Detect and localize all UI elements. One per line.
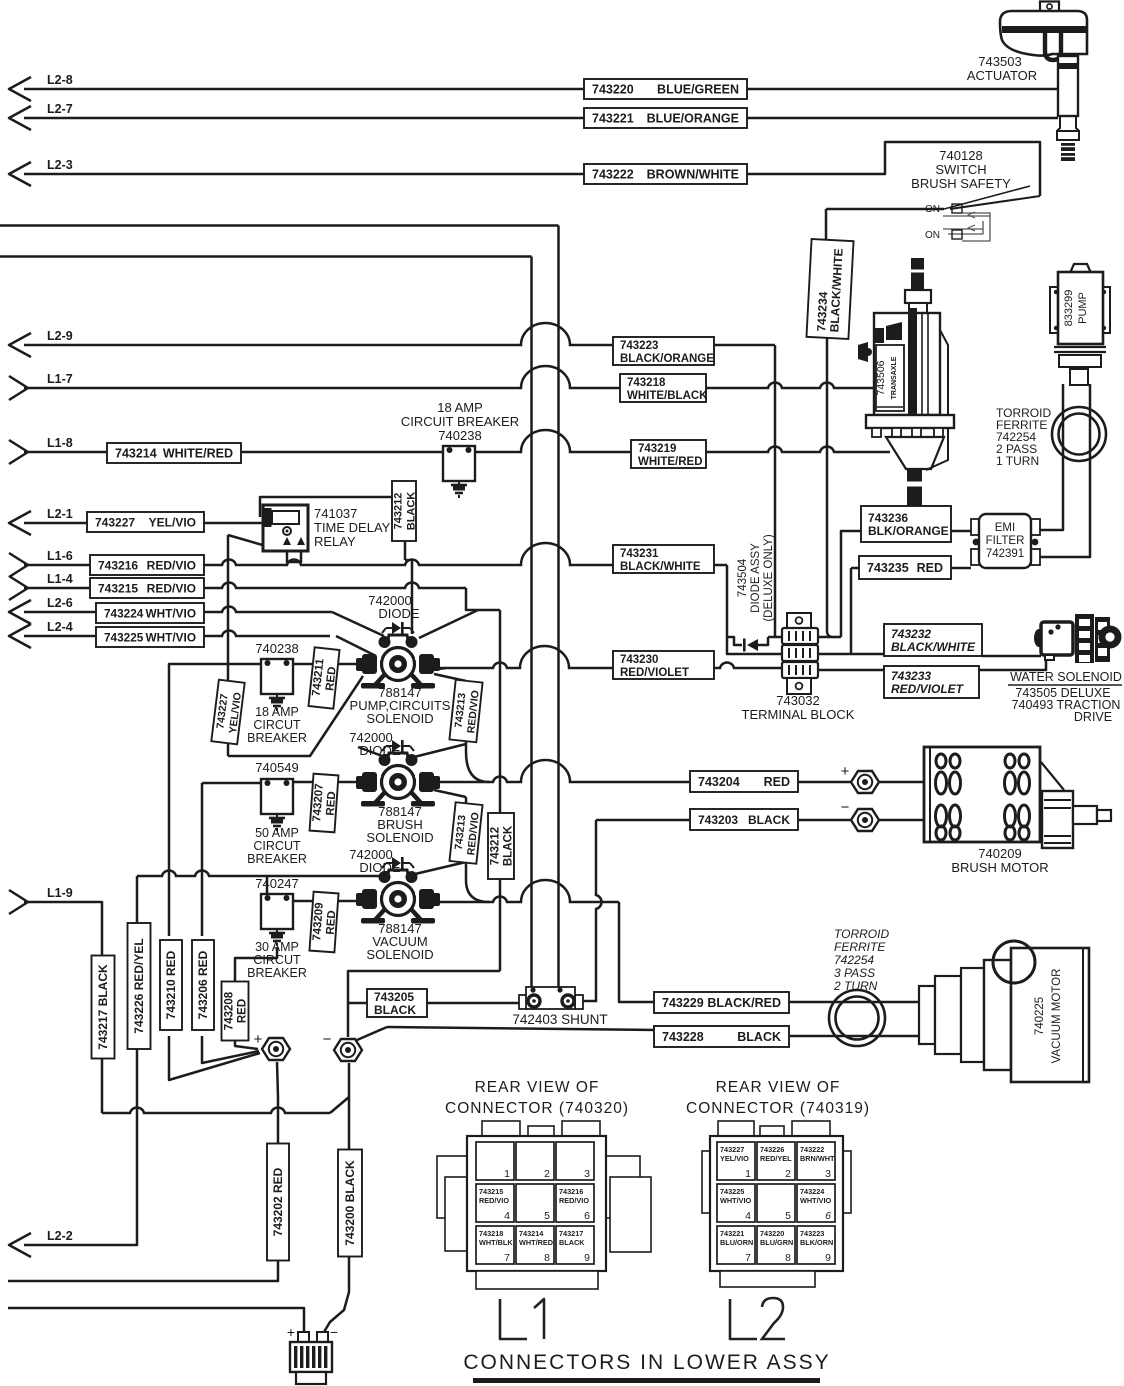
wire relay pins	[287, 551, 301, 562]
wire branch to brush solenoid	[414, 744, 466, 757]
svg-text:740128: 740128	[939, 148, 982, 163]
wire 743234 switch drop	[826, 208, 944, 211]
svg-text:CIRCUIT BREAKER: CIRCUIT BREAKER	[401, 414, 519, 429]
node L1-4	[9, 576, 28, 600]
svg-text:L1-4: L1-4	[47, 572, 73, 586]
svg-text:743226: 743226	[760, 1145, 784, 1154]
svg-text:BLACK: BLACK	[374, 1003, 416, 1017]
svg-text:743226 RED/YEL: 743226 RED/YEL	[132, 938, 146, 1033]
svg-text:EMI: EMI	[995, 522, 1015, 534]
label 743212 black #2	[488, 813, 514, 879]
svg-text:WHT/VIO: WHT/VIO	[146, 631, 196, 645]
connector L1 pin 4	[476, 1184, 514, 1222]
pump 833299	[1070, 264, 1091, 273]
wire L1-4 jog to black wire	[466, 588, 500, 610]
svg-text:+: +	[841, 763, 850, 780]
svg-text:BLACK: BLACK	[559, 1238, 585, 1247]
svg-text:743232: 743232	[891, 627, 931, 641]
svg-text:743210 RED: 743210 RED	[164, 950, 178, 1019]
shunt 742403	[519, 995, 527, 1009]
svg-text:BLK/ORANGE: BLK/ORANGE	[868, 524, 949, 538]
connector L2 pin 2	[757, 1142, 795, 1180]
svg-text:DRIVE: DRIVE	[1074, 710, 1112, 724]
wire 50a breaker feed	[228, 755, 231, 758]
svg-text:BROWN/WHITE: BROWN/WHITE	[647, 168, 739, 182]
svg-text:FERRITE: FERRITE	[834, 940, 886, 954]
wire minus stud diag to 743228	[357, 1027, 387, 1040]
connector L1 body	[482, 1121, 520, 1136]
wire 743229 drop	[619, 902, 654, 1002]
svg-text:RED: RED	[324, 666, 338, 691]
wire 743229 vacuum solenoid right	[434, 880, 619, 902]
wire 743206 drop	[201, 783, 204, 936]
svg-text:VACUUM MOTOR: VACUUM MOTOR	[1051, 969, 1063, 1064]
svg-text:740225: 740225	[1034, 997, 1046, 1035]
connector L2 pin 9	[797, 1226, 835, 1264]
label 743216 red/vio	[90, 555, 204, 575]
svg-text:L2-6: L2-6	[47, 596, 73, 610]
wire manifold 876	[137, 870, 267, 876]
svg-text:6: 6	[584, 1210, 590, 1222]
torroid ferrite 742254 vacuum	[829, 990, 885, 1046]
wire 743233 to water solenoid	[979, 657, 1046, 670]
svg-text:743214: 743214	[115, 447, 157, 461]
svg-text:RED/VIO: RED/VIO	[479, 1196, 509, 1205]
svg-text:1: 1	[745, 1168, 751, 1180]
wire 743209 breaker to vacuum solenoid	[288, 900, 363, 903]
svg-text:833299: 833299	[1063, 290, 1075, 327]
svg-text:BRUSH MOTOR: BRUSH MOTOR	[951, 860, 1048, 875]
label 743236 blk/orange	[861, 506, 951, 542]
svg-text:L2-8: L2-8	[47, 73, 73, 87]
svg-text:740209: 740209	[978, 846, 1021, 861]
wire L2-6 diagonal to pump diode	[332, 612, 384, 636]
wire 743219 to transaxle	[474, 430, 890, 452]
label 743225 wht/vio	[96, 627, 204, 647]
wire minus stud to brush motor	[878, 819, 924, 822]
wire 743231 drop	[727, 565, 783, 654]
connector L1 pin 2	[516, 1142, 554, 1180]
svg-text:ON: ON	[925, 230, 940, 241]
wire middle cell to 743232	[816, 653, 884, 656]
svg-text:BLACK/WHITE: BLACK/WHITE	[891, 640, 976, 654]
svg-text:REAR VIEW OF: REAR VIEW OF	[475, 1079, 600, 1096]
svg-text:BREAKER: BREAKER	[247, 852, 307, 866]
svg-text:REAR VIEW OF: REAR VIEW OF	[716, 1079, 841, 1096]
wire L2-4 diagonal to pump solenoid	[336, 636, 376, 656]
label 743219 white/red	[631, 440, 706, 468]
svg-text:743215: 743215	[479, 1187, 503, 1196]
svg-text:RED: RED	[325, 910, 339, 935]
label 743212 black #1	[392, 481, 416, 541]
svg-text:743229: 743229	[662, 996, 704, 1010]
svg-text:741037: 741037	[314, 506, 357, 521]
connector L2 pin 5	[757, 1184, 795, 1222]
svg-text:743216: 743216	[98, 559, 138, 573]
connector L2 pin 8	[757, 1226, 795, 1264]
label 743221 blue/orange	[584, 108, 747, 128]
wire battery plus feed	[8, 1308, 304, 1331]
svg-text:18 AMP: 18 AMP	[255, 705, 299, 719]
svg-text:743206 RED: 743206 RED	[196, 950, 210, 1019]
wire 743206 diag to plus stud	[202, 1036, 259, 1063]
svg-text:743202 RED: 743202 RED	[271, 1167, 285, 1236]
wire 743204 brush solenoid to motor plus	[434, 760, 852, 782]
wire 743236 blk/orange	[841, 531, 861, 637]
label 743213 red/vio #1	[449, 680, 482, 742]
wire diode assy jog	[758, 637, 768, 645]
wire 743236 to emi	[951, 530, 971, 533]
svg-text:743227: 743227	[720, 1145, 744, 1154]
svg-text:RED: RED	[764, 775, 790, 789]
node L2-3	[9, 162, 31, 186]
svg-text:RED/VIO: RED/VIO	[559, 1196, 589, 1205]
svg-text:SOLENOID: SOLENOID	[366, 711, 433, 726]
svg-text:6: 6	[825, 1210, 831, 1222]
label 743214 white/red	[107, 443, 241, 463]
wire L1-4 / 743215	[24, 582, 466, 588]
label 743228 black	[654, 1026, 789, 1047]
svg-text:742391: 742391	[986, 548, 1024, 560]
connector L2 body	[718, 1121, 754, 1136]
label 743222 brown/white	[584, 164, 747, 184]
wire 743235 red	[850, 568, 853, 654]
svg-text:BLUE/ORANGE: BLUE/ORANGE	[647, 112, 739, 126]
wire 743228 black	[387, 1027, 657, 1030]
wire 18 amp breaker 2 feed	[169, 663, 267, 665]
svg-text:743215: 743215	[98, 582, 138, 596]
wire L2-1 / 743227 to relay	[24, 522, 263, 525]
wire L1-9 drop	[24, 902, 102, 1113]
wire 743234 to terminal	[826, 338, 829, 631]
svg-text:BLUE/GREEN: BLUE/GREEN	[657, 83, 739, 97]
svg-text:BLACK: BLACK	[748, 813, 790, 827]
label 743220 blue/green	[584, 79, 747, 99]
svg-text:L1-6: L1-6	[47, 549, 73, 563]
connector L2 pin 6	[797, 1184, 835, 1222]
wire chain2 drop	[465, 797, 468, 880]
svg-text:RED/VIOLET: RED/VIOLET	[620, 667, 689, 679]
svg-text:743504: 743504	[737, 558, 749, 597]
svg-text:743203: 743203	[698, 813, 738, 827]
svg-text:9: 9	[584, 1252, 590, 1264]
svg-text:743225: 743225	[104, 631, 144, 645]
circuit breaker 740247	[261, 894, 293, 929]
wire chain1 diag	[434, 674, 466, 681]
connector L2 pin 7	[717, 1226, 755, 1264]
connector L1 pin 1	[476, 1142, 514, 1180]
svg-text:TIME DELAY: TIME DELAY	[314, 520, 391, 535]
svg-text:L2-9: L2-9	[47, 329, 73, 343]
svg-text:3 PASS: 3 PASS	[834, 966, 875, 980]
svg-text:WHITE/BLACK: WHITE/BLACK	[627, 390, 708, 402]
label 743231 black/white	[613, 545, 714, 573]
solenoid 788147 pump circuits	[386, 635, 410, 647]
svg-text:L2-2: L2-2	[47, 1229, 73, 1243]
wire 743208 up to 30a breaker	[235, 947, 277, 982]
svg-text:BREAKER: BREAKER	[247, 731, 307, 745]
label 743203 black	[690, 809, 798, 830]
wire 50a left	[202, 782, 264, 785]
svg-text:7: 7	[504, 1252, 510, 1264]
connector L2 pin 1	[717, 1142, 755, 1180]
label 743204 red	[690, 771, 798, 792]
wire harness upper	[0, 224, 559, 227]
wire 743228 to vacuum motor	[657, 1035, 919, 1038]
svg-text:742403 SHUNT: 742403 SHUNT	[512, 1012, 607, 1027]
svg-text:3: 3	[825, 1168, 831, 1180]
wire harness lower	[0, 255, 532, 258]
wire 743235 to emi	[951, 567, 971, 570]
terminal block 743032	[787, 613, 811, 629]
svg-text:743218: 743218	[479, 1229, 503, 1238]
svg-text:30 AMP: 30 AMP	[255, 940, 299, 954]
svg-text:L2-7: L2-7	[47, 102, 73, 116]
svg-text:BLACK: BLACK	[406, 492, 418, 531]
svg-text:YEL/VIO: YEL/VIO	[149, 516, 196, 530]
wire top cell left	[768, 636, 783, 639]
wire minus stud to 743200	[324, 1063, 349, 1332]
wire bottom cell to 743233	[816, 669, 884, 672]
svg-text:WHT/RED: WHT/RED	[519, 1238, 553, 1247]
svg-text:5: 5	[544, 1210, 550, 1222]
wire 743235 left	[851, 567, 859, 570]
wire 743210 diag to plus stud	[169, 1036, 260, 1080]
wire 30a breaker feed drop	[266, 876, 269, 893]
svg-text:FILTER: FILTER	[986, 535, 1025, 547]
wire brush minus drop to shunt	[582, 820, 602, 1001]
svg-text:WHT/BLK: WHT/BLK	[479, 1238, 513, 1247]
wire L2-3 to brush safety switch	[24, 142, 1040, 196]
diode assy diode	[747, 639, 758, 651]
svg-text:1: 1	[504, 1168, 510, 1180]
svg-text:743503: 743503	[978, 54, 1021, 69]
wire L2-7 to actuator	[24, 117, 1058, 120]
label 743200 black	[338, 1150, 362, 1257]
label 743209 red	[309, 892, 339, 953]
wire chain2 curve	[466, 880, 489, 902]
wire diode leader brush	[358, 747, 382, 756]
label 743206 red	[192, 940, 214, 1030]
label 743202 red	[267, 1144, 289, 1261]
label 743211 red	[308, 647, 340, 708]
svg-text:BLACK/WHITE: BLACK/WHITE	[620, 561, 701, 573]
label 743218 white/black	[620, 374, 706, 402]
node L2-7	[9, 106, 31, 130]
svg-text:DIODE ASSY: DIODE ASSY	[750, 543, 762, 613]
node L1-9	[9, 890, 28, 914]
svg-text:BLACK/ORANGE: BLACK/ORANGE	[620, 353, 714, 365]
svg-text:743222: 743222	[592, 168, 634, 182]
actuator 743503	[1040, 2, 1059, 13]
svg-text:BLU/ORN: BLU/ORN	[720, 1238, 753, 1247]
label 743229 black/red	[654, 992, 789, 1013]
svg-text:BLACK: BLACK	[503, 825, 515, 866]
svg-text:BLACK/RED: BLACK/RED	[707, 996, 781, 1010]
svg-text:743230: 743230	[620, 654, 658, 666]
connector L1 pin 9	[556, 1226, 594, 1264]
svg-text:743212: 743212	[393, 493, 405, 530]
svg-text:743032: 743032	[776, 693, 819, 708]
brush motor 740209	[924, 747, 1040, 842]
svg-text:743200 BLACK: 743200 BLACK	[343, 1160, 357, 1246]
svg-text:WHT/VIO: WHT/VIO	[720, 1196, 752, 1205]
svg-text:743216: 743216	[559, 1187, 583, 1196]
svg-text:740247: 740247	[255, 876, 298, 891]
stud battery minus	[334, 1039, 362, 1061]
wire top cell right	[816, 636, 841, 639]
wire L1-6 / 743216 / 743231	[24, 543, 727, 565]
svg-text:RED/VIOLET: RED/VIOLET	[891, 682, 965, 696]
svg-text:743219: 743219	[638, 443, 676, 455]
solenoid 788147 vacuum	[386, 870, 410, 882]
svg-text:4: 4	[504, 1210, 510, 1222]
svg-text:8: 8	[785, 1252, 791, 1264]
svg-text:743235: 743235	[867, 561, 909, 575]
node L2-1	[9, 511, 31, 535]
svg-text:743220: 743220	[760, 1229, 784, 1238]
svg-text:SOLENOID: SOLENOID	[366, 947, 433, 962]
label 743235 red	[859, 556, 951, 579]
svg-text:−: −	[330, 1324, 338, 1340]
svg-text:743236: 743236	[868, 511, 908, 525]
wire chain1 curve	[466, 752, 489, 782]
text L1	[500, 1299, 527, 1339]
label 743213 red/vio #2	[449, 802, 482, 863]
node L2-4	[9, 624, 31, 648]
text L2	[730, 1299, 757, 1339]
svg-text:18 AMP: 18 AMP	[437, 400, 483, 415]
label 743207 red	[310, 774, 340, 833]
label 743226 red/yel	[128, 923, 151, 1049]
transaxle 743506	[911, 258, 924, 290]
wire pump to emi left	[1037, 384, 1063, 530]
svg-text:743221: 743221	[592, 112, 634, 126]
torroid ferrite 742254 pump	[1052, 407, 1106, 461]
wire pump solenoid return	[228, 676, 363, 756]
svg-text:743225: 743225	[720, 1187, 744, 1196]
wire pump solenoid right diag	[431, 668, 446, 670]
svg-text:L1-7: L1-7	[47, 372, 73, 386]
svg-text:740238: 740238	[255, 641, 298, 656]
stud brush motor minus	[851, 809, 879, 831]
circuit breaker 740238 #1	[443, 446, 475, 481]
wire 743232 to water solenoid	[982, 655, 1041, 658]
svg-text:TERMINAL BLOCK: TERMINAL BLOCK	[742, 707, 855, 722]
svg-text:CIRCUT: CIRCUT	[253, 718, 301, 732]
wire L2-8 to actuator	[24, 88, 1058, 91]
label 743210 red	[160, 940, 182, 1030]
svg-text:SOLENOID: SOLENOID	[366, 830, 433, 845]
svg-text:743205: 743205	[374, 990, 414, 1004]
wire 743223 drop to terminal block	[774, 345, 777, 637]
wire 743229 to torroid	[789, 1001, 919, 1004]
svg-text:2: 2	[785, 1168, 791, 1180]
wire chain1 drop	[465, 681, 468, 752]
svg-text:8: 8	[544, 1252, 550, 1264]
label 743215 red/vio	[90, 578, 204, 598]
svg-text:WHITE/RED: WHITE/RED	[638, 456, 703, 468]
svg-text:50 AMP: 50 AMP	[255, 826, 299, 840]
svg-text:BREAKER: BREAKER	[247, 966, 307, 980]
svg-text:−: −	[841, 799, 850, 816]
svg-text:BLACK: BLACK	[737, 1030, 781, 1044]
connector L1 pin 5	[516, 1184, 554, 1222]
wire harness trunk right	[557, 226, 560, 990]
wire 743230 pump solenoid to terminal	[434, 646, 783, 668]
wire L2-6 / 743224	[24, 606, 332, 612]
svg-text:CIRCUT: CIRCUT	[253, 953, 301, 967]
label 743217 black	[92, 956, 115, 1059]
svg-text:WHITE/RED: WHITE/RED	[163, 447, 233, 461]
svg-text:RED/YEL: RED/YEL	[760, 1154, 792, 1163]
svg-text:740549: 740549	[255, 760, 298, 775]
svg-text:BLK/ORN: BLK/ORN	[800, 1238, 833, 1247]
wire 743203 brush motor minus	[596, 819, 852, 822]
wire relay drop	[227, 535, 230, 756]
wire branch to vacuum solenoid	[415, 862, 466, 874]
label 743223 black/orange	[613, 337, 714, 365]
connector L1 pin 3	[556, 1142, 594, 1180]
wire 743202 from plus stud	[8, 1062, 278, 1281]
wire 743212 black drop	[499, 610, 502, 971]
svg-text:743217 BLACK: 743217 BLACK	[96, 964, 110, 1050]
svg-text:ACTUATOR: ACTUATOR	[967, 68, 1037, 83]
label 743230 red/violet	[613, 651, 714, 679]
connector L2 pin 4	[717, 1184, 755, 1222]
label 743227 yel/vio vertical	[211, 680, 245, 745]
svg-text:BRN/WHT: BRN/WHT	[800, 1154, 835, 1163]
svg-text:743221: 743221	[720, 1229, 744, 1238]
svg-text:743227: 743227	[95, 516, 135, 530]
wire 743211 breaker to pump solenoid	[286, 663, 363, 666]
wire relay diagonal	[228, 535, 266, 546]
svg-text:743224: 743224	[104, 607, 144, 621]
connector L1 pin 7	[476, 1226, 514, 1264]
circuit breaker 740549	[261, 779, 293, 814]
wire bus diag to minus stud	[330, 1097, 349, 1113]
emi filter 742391	[971, 519, 980, 535]
svg-text:BLU/GRN: BLU/GRN	[760, 1238, 793, 1247]
wire 743212 drop2	[411, 560, 414, 634]
svg-text:7: 7	[745, 1252, 751, 1264]
connector L1 pin 6	[556, 1184, 594, 1222]
svg-text:743212: 743212	[490, 827, 502, 865]
label 743224 wht/vio	[96, 603, 204, 623]
svg-text:RED: RED	[325, 791, 339, 816]
label 743227 yel/vio	[87, 512, 204, 532]
circuit breaker 740238 #2	[261, 659, 293, 694]
wire harness trunk left	[530, 257, 533, 990]
stud battery plus	[262, 1038, 290, 1060]
svg-text:740238: 740238	[438, 428, 481, 443]
wire L1-8 / 743214 left	[24, 451, 447, 454]
svg-text:743204: 743204	[698, 775, 740, 789]
svg-text:L2-3: L2-3	[47, 158, 73, 172]
relay 741037 time delay	[263, 505, 308, 551]
node L2-2	[9, 1233, 31, 1257]
wire pump to emi right	[1037, 384, 1090, 557]
svg-text:WATER SOLENOID: WATER SOLENOID	[1010, 670, 1122, 684]
stud brush motor plus	[851, 771, 879, 793]
svg-text:WHT/VIO: WHT/VIO	[146, 607, 196, 621]
svg-text:RED: RED	[237, 999, 249, 1023]
wire 743210 corner	[168, 664, 171, 936]
label 743205 black	[367, 989, 427, 1017]
node L1-8	[9, 440, 28, 464]
node L2-6	[9, 600, 31, 624]
node L1-7	[9, 376, 28, 400]
